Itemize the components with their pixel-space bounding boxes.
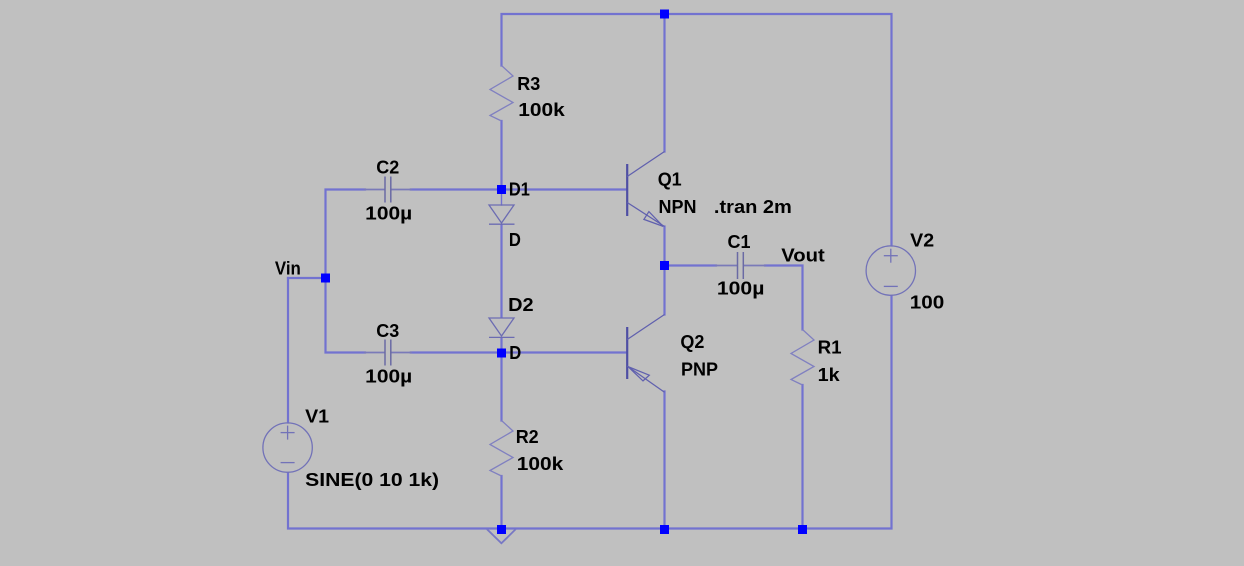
wire V1 top — [287, 278, 289, 423]
transistor Q1 — [627, 152, 664, 227]
wire C1 to Vout corner — [765, 266, 803, 330]
wire top rail — [502, 14, 892, 246]
wire C2 right to D1 node — [411, 188, 502, 190]
node Vin — [321, 274, 330, 283]
capacitor C2 leads — [365, 189, 385, 191]
svg-text:R2: R2 — [516, 427, 539, 447]
wire Vin column to C3 — [326, 278, 366, 353]
wire node D to R2 — [500, 353, 502, 421]
resistor R1 — [791, 330, 814, 386]
svg-text:100k: 100k — [518, 100, 566, 120]
wire Q1 base — [502, 188, 627, 190]
capacitor C1 — [738, 252, 744, 279]
node output — [660, 261, 669, 270]
capacitor C1 leads — [716, 265, 737, 267]
wire output node to C1 — [665, 264, 717, 266]
wire output node to Q2 — [663, 266, 665, 315]
svg-text:C2: C2 — [376, 158, 399, 178]
svg-text:C3: C3 — [376, 321, 399, 341]
svg-text:Q2: Q2 — [680, 332, 704, 352]
wire R1 bottom — [801, 385, 803, 529]
svg-text:R3: R3 — [517, 74, 540, 94]
svg-text:PNP: PNP — [681, 360, 718, 380]
svg-text:C1: C1 — [728, 232, 751, 252]
svg-text:SINE(0 10 1k): SINE(0 10 1k) — [305, 470, 439, 490]
node D1 — [497, 185, 506, 194]
svg-text:D2: D2 — [508, 295, 533, 315]
node R1 bottom — [798, 525, 807, 534]
capacitor C3 — [385, 340, 391, 366]
wire C2 left — [326, 190, 366, 279]
svg-text:100µ: 100µ — [365, 204, 412, 224]
wire R2 bottom to ground — [500, 476, 502, 529]
svg-text:D1: D1 — [509, 180, 530, 200]
wire D1 node to triangle lead — [501, 190, 503, 206]
capacitor C3 leads — [365, 352, 385, 354]
svg-text:100µ: 100µ — [365, 367, 412, 387]
svg-text:100: 100 — [910, 293, 945, 313]
wire R3 bottom to D1 node — [500, 121, 502, 190]
node D — [497, 349, 506, 358]
wire C3 right to node D — [411, 351, 502, 353]
voltage source V2 — [866, 246, 915, 295]
svg-text:D: D — [509, 343, 521, 363]
transistor Q2 — [627, 315, 664, 393]
svg-text:R1: R1 — [818, 338, 842, 358]
resistor R2 — [490, 421, 513, 477]
wire D2 to node D — [500, 338, 502, 353]
capacitor C2 — [385, 177, 391, 203]
voltage source V1 — [263, 423, 312, 472]
wire D1 to D2 — [500, 225, 502, 317]
ground — [488, 530, 515, 544]
svg-text:100k: 100k — [517, 454, 565, 474]
wire Vin stub — [288, 277, 326, 279]
svg-text:.tran 2m: .tran 2m — [714, 197, 792, 217]
wire Q1 collector up — [663, 14, 665, 152]
svg-text:D: D — [509, 230, 521, 250]
svg-text:V2: V2 — [910, 231, 934, 251]
wire Q2 base — [502, 351, 627, 353]
svg-text:Q1: Q1 — [658, 170, 682, 190]
svg-text:Vin: Vin — [275, 259, 301, 279]
svg-text:1k: 1k — [818, 365, 841, 385]
svg-text:100µ: 100µ — [717, 279, 765, 299]
wire V1 bottom to bottom rail — [288, 296, 892, 529]
diode D2 — [489, 318, 515, 337]
svg-text:NPN: NPN — [659, 197, 697, 217]
resistor R3 — [490, 66, 513, 122]
svg-text:V1: V1 — [305, 407, 329, 427]
node top rail / Q1 collector — [660, 10, 669, 19]
wire Q1 emitter down to output node — [663, 227, 665, 266]
node ground — [497, 525, 506, 534]
diode D1 — [489, 205, 515, 224]
svg-text:Vout: Vout — [781, 246, 825, 266]
wire Q2 collector down to bottom rail — [663, 392, 665, 529]
node Q2 collector bottom — [660, 525, 669, 534]
